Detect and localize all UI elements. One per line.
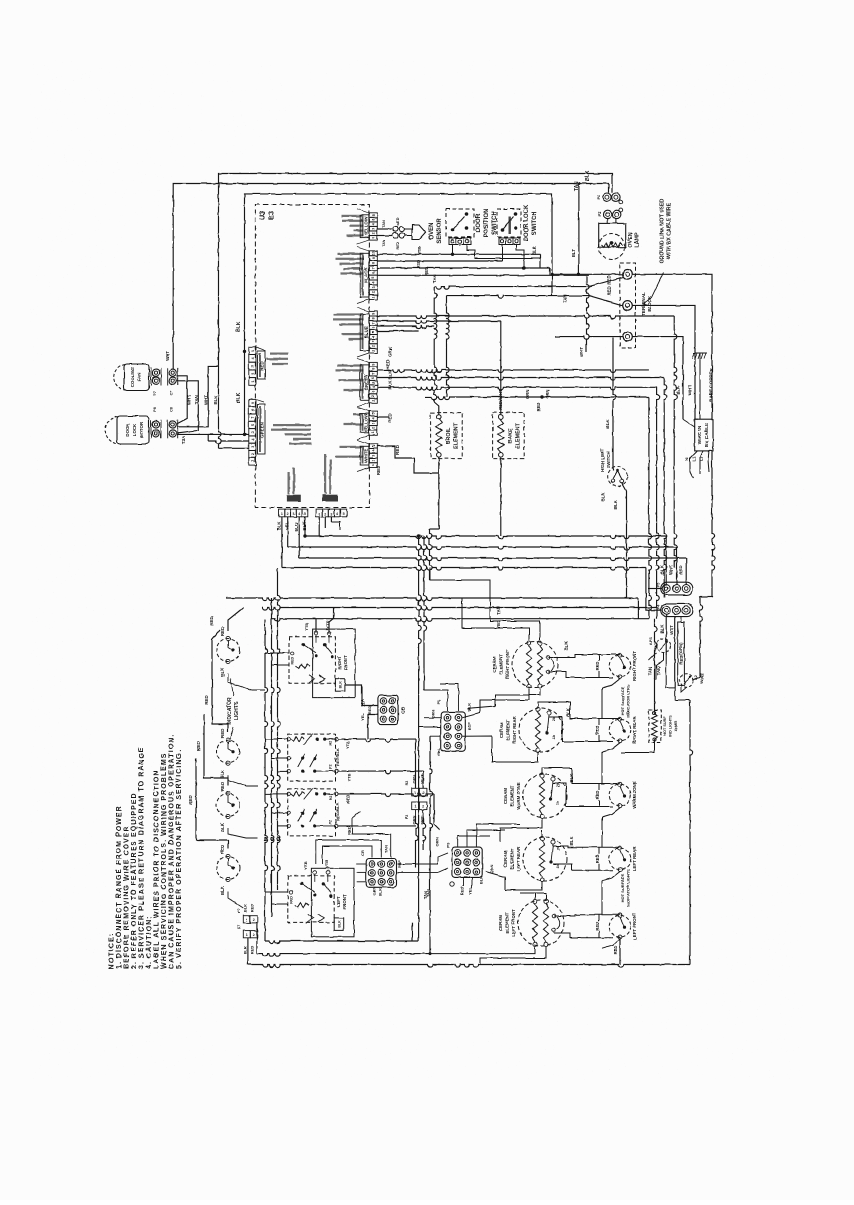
- wire vertical x446 to y397: [447, 296, 450, 397]
- wire into terminal 1: [552, 273, 623, 275]
- wire terminal 3 right: [632, 337, 683, 420]
- wire RED black strip y261: [377, 260, 502, 262]
- wire RED to indicator 3: [204, 714, 228, 786]
- wire blue strip run 3: [377, 326, 434, 329]
- wires P4 pins down: [665, 614, 667, 655]
- bottom left verticals: [247, 938, 249, 965]
- wire blk vertical into green strip third: [219, 366, 222, 448]
- control board U3 E3 dashed outline: [255, 205, 369, 508]
- transformer bottom to chain: [621, 740, 655, 753]
- indicator light 2: [217, 740, 240, 763]
- door position switch contacts: [451, 228, 455, 232]
- main vertical bus x418: [419, 536, 422, 712]
- wire x712 right edge down: [712, 451, 715, 597]
- wire RED to indicator 4: [196, 758, 228, 849]
- ceramic element right rear: [519, 708, 563, 752]
- terminal 1: [623, 270, 633, 280]
- wires P6 left to bus: [424, 717, 441, 719]
- bottom wire y941: [265, 941, 419, 944]
- wires P6 top from bus: [424, 690, 448, 711]
- connector strip RED board left: [249, 347, 256, 355]
- red grn label box: [678, 622, 685, 685]
- wire into terminal 2 diagonal: [555, 296, 623, 306]
- door lock switch contacts: [501, 228, 505, 232]
- wires yellow strip to oven sensor: [377, 228, 392, 230]
- taps to switch 3: [265, 793, 288, 795]
- connector strip GREEN with pin text: [369, 362, 377, 367]
- ceramic element right front: [512, 642, 558, 688]
- connector grid A 3x3: [366, 859, 396, 888]
- infinite switch left rear: [288, 789, 336, 836]
- connector P2m 2-pin: [412, 802, 420, 810]
- broil return joins bus: [430, 528, 439, 530]
- wire broil top feed: [434, 402, 439, 415]
- wire y567 corner down to P4 pin1: [646, 568, 662, 611]
- infinite switch left front: [288, 876, 334, 923]
- cooling fan plug C7: [167, 368, 169, 386]
- broil element dashed box: [431, 413, 463, 459]
- connector strip BLUE with pin text: [369, 311, 377, 316]
- wires P5 pins up to bus: [665, 536, 667, 585]
- wire diagonal from terminal 1: [555, 277, 623, 287]
- connector strip BLACK with pin text: [369, 251, 377, 256]
- door lock motor body: [117, 416, 149, 444]
- oven sensor probe connector: [404, 228, 412, 230]
- ground link leader arrow: [644, 273, 664, 305]
- door lock switch dashed box: [497, 209, 521, 237]
- taps to switch 2: [265, 738, 288, 740]
- wires R2 P2m to bus: [415, 781, 417, 788]
- wire into green strip second: [208, 441, 249, 444]
- wire TAN second run to plug P1: [173, 184, 608, 370]
- wire door position switch COM drop: [452, 245, 454, 255]
- connector strip board bottom right: [316, 509, 322, 517]
- wire terminal 1 to bx cable right edge: [632, 274, 712, 419]
- wire red from white strip to broil: [377, 446, 439, 473]
- wire BLK top run to oven lamp plug P1: [219, 174, 613, 366]
- door position switch terminal strip: [449, 238, 471, 245]
- wire left runs terminal area y286: [434, 287, 555, 290]
- bottom wire y953: [257, 954, 430, 957]
- wire transformer top to bus y618: [655, 619, 658, 713]
- wire from bottom strip A pin2 down: [287, 517, 289, 547]
- wire green strip runs right: [377, 370, 649, 373]
- wire RED to indicator 1: [228, 608, 244, 631]
- wires grid A top to switch4: [323, 846, 373, 864]
- indicator light 1: [217, 639, 240, 662]
- wire x657 from bus y607: [656, 608, 658, 619]
- bx cable entry leads: [683, 419, 695, 427]
- door lock switch tiny text: [509, 216, 511, 234]
- infinite switch right front: [289, 637, 335, 684]
- wires grid P9 top to right: [458, 836, 490, 847]
- bus wire y598: [226, 598, 638, 601]
- connector P4 3 circle pins: [661, 604, 693, 617]
- wire fan plug TAN step down: [177, 381, 199, 433]
- wire blue strip run 4: [377, 330, 418, 332]
- oven lamp filament: [602, 243, 623, 248]
- bake element dashed box: [493, 413, 525, 459]
- connector P6 grid 2x4: [441, 712, 466, 751]
- connector strip board bottom left: [279, 509, 285, 517]
- ceramic element left front: [518, 900, 564, 946]
- breaker connector CB: [378, 695, 398, 724]
- wire bake bottom return: [500, 457, 502, 536]
- connector strip YELLOW with pin text: [369, 213, 377, 218]
- connector strip WHITE with pin text: [369, 444, 377, 449]
- wire wht from top frame to door plug: [177, 366, 219, 427]
- wire blue strip runs right: [377, 316, 674, 319]
- wire yellow2 strip run: [377, 416, 389, 418]
- indicator light 3: [217, 794, 240, 817]
- taps to switch 4: [265, 891, 288, 893]
- bottom strip A tiny text: [288, 472, 290, 494]
- bus wire y618: [272, 619, 649, 622]
- hot surface switch left front: [609, 915, 631, 937]
- wire bundle vertical with humps at x586: [587, 277, 590, 353]
- wire in bx cable box: [695, 419, 713, 451]
- wire right column x656 from y387: [657, 387, 660, 607]
- bx cable tails: [690, 451, 697, 478]
- wire green strip run to x664: [377, 378, 664, 381]
- oven frame wire left lower: [244, 351, 246, 434]
- scan speckle noise: [95, 145, 740, 995]
- left bus vertical x271: [272, 598, 275, 917]
- plug pair P1: [603, 193, 611, 201]
- bake element resistor: [499, 415, 504, 420]
- ceramic element left rear: [523, 837, 567, 881]
- wires element right front top feeds: [462, 598, 529, 640]
- transformer winding: [652, 713, 658, 740]
- door position switch dashed box: [446, 209, 474, 237]
- oven lamp housing: [599, 223, 626, 247]
- wires switch3 right: [338, 794, 435, 797]
- door motor plug C8: [167, 420, 169, 439]
- plug pair P2: [604, 210, 612, 218]
- bus wire y607: [262, 608, 657, 611]
- wires grid P9 down: [463, 878, 465, 887]
- main vertical bus x424: [424, 536, 427, 690]
- switch chain verticals: [601, 688, 603, 719]
- junction dot red strip pin 1: [243, 350, 246, 353]
- oven frame wire top: [245, 194, 553, 352]
- door lock switch terminal strip: [499, 238, 520, 245]
- wires element right rear: [538, 702, 581, 719]
- wires switch1 top pins up to bus: [315, 619, 317, 634]
- wire BLK vertical from tan wire to terminal 1 line: [578, 184, 580, 275]
- wires element right front to switch: [548, 655, 581, 658]
- wire switch1 blk boxlet right: [345, 685, 378, 706]
- wire broil bottom return: [438, 457, 440, 529]
- hot surface switch right rear: [609, 719, 631, 741]
- bus wire y567: [282, 568, 646, 571]
- wires grid A to switch 4: [357, 881, 366, 883]
- wire from high limit bottom: [622, 483, 627, 598]
- bus wire y547: [288, 547, 677, 550]
- wire from bottom strip A pin4 down: [298, 517, 300, 558]
- wire right column x648 from green wires: [649, 397, 652, 619]
- connector strip YELLOW lower with pin text: [369, 411, 377, 416]
- hot surface ind lights transformer dashed box: [649, 710, 662, 743]
- wires element right front bottoms: [463, 689, 530, 718]
- hot surface switch right front: [609, 655, 631, 677]
- terminal 3: [623, 332, 633, 342]
- indicator light 4: [217, 857, 240, 880]
- wire RED to indicator 2: [212, 630, 228, 732]
- connector strip GREEN board left: [249, 399, 256, 406]
- cooling fan plug P7: [150, 368, 152, 386]
- wire stub into P5 pin1: [648, 588, 662, 590]
- green strip tiny pin text: [273, 424, 311, 426]
- wire switch4 bottoms down: [429, 933, 431, 954]
- connector R7 2-pin bottom left: [243, 931, 250, 938]
- wires indicator bottoms to left bus: [228, 674, 265, 691]
- wires switch2 to R2 connector: [338, 739, 416, 742]
- wire from bottom strip A pin1 down: [281, 517, 283, 568]
- terminal 2: [623, 301, 633, 311]
- wire fan plug step down right: [177, 376, 187, 424]
- oven lamp supply wires: [607, 219, 609, 224]
- wire circle L2 bottom: [680, 674, 694, 688]
- main vertical bus x429 broil return: [430, 529, 433, 580]
- ceramic element warm zone: [523, 774, 567, 818]
- bottom strip B tiny text: [324, 454, 326, 494]
- wire tan diagonal from left: [649, 653, 656, 660]
- connector grid P9 3x3: [452, 847, 482, 877]
- connector P7 2-pin bottom left: [243, 916, 250, 923]
- wire x700 from x712 corner: [700, 597, 703, 677]
- hot surface switch left rear: [609, 848, 631, 870]
- left bus vertical x277: [278, 568, 281, 891]
- wire TAN vertical x430: [430, 736, 433, 933]
- wires element left rear: [541, 830, 543, 837]
- broil element resistor: [437, 415, 442, 420]
- frame right drop to wire: [551, 274, 553, 295]
- door lock drop wires: [540, 254, 542, 268]
- high limit switch dashed circle: [608, 467, 628, 487]
- wires element left front: [534, 893, 536, 899]
- wire TAN black strip y275: [377, 274, 589, 276]
- wire bake top feed: [500, 397, 502, 415]
- wire left front switch bottom to y964: [619, 937, 621, 965]
- wire x418 bottom joins y712: [418, 712, 420, 941]
- wire x690 long right vertical: [690, 700, 693, 965]
- wire terminal 2 right: [632, 305, 695, 419]
- wire BLK black strip pin row y254: [377, 253, 540, 255]
- wire blue strip run 2: [377, 321, 501, 324]
- oven lamp bulb dashed circle: [599, 234, 625, 260]
- wire red grn to circle: [681, 685, 687, 692]
- wire door position switch NO drop: [467, 245, 541, 259]
- wires element warm zone: [542, 768, 581, 784]
- wires grid A right to P9: [398, 853, 449, 864]
- long wire y397 with junction: [425, 397, 649, 400]
- wire y598 corner down join y618: [637, 598, 639, 619]
- terminal block dashed outline: [620, 263, 636, 348]
- infinite switch warm zone: [288, 734, 336, 781]
- oven sensor splice circles: [393, 226, 398, 231]
- bus wire y558: [299, 558, 686, 561]
- wires from bottom strip B down: [318, 517, 320, 536]
- ground bare copper symbol: [699, 360, 701, 419]
- left bus vertical x265: [265, 620, 268, 941]
- bus wire y536: [305, 536, 666, 539]
- LPS light sensor dashed circle: [657, 639, 671, 653]
- wire terminal 3 long left with humps: [555, 337, 623, 340]
- indicator leader lines: [231, 678, 234, 696]
- wire RED black strip y268: [377, 267, 549, 269]
- connector R2 2-pin: [412, 788, 420, 796]
- wire from bottom strip A pin5 down: [304, 517, 306, 536]
- hot surface switch warm zone: [609, 784, 631, 806]
- connector P5 3 circle pins: [661, 582, 693, 595]
- wire BLK into high limit from top: [613, 338, 616, 471]
- taps to switch 1: [265, 652, 289, 654]
- wire from P4 down to bottom: [666, 655, 675, 688]
- wire door motor to green strip: [177, 433, 249, 435]
- wire left runs terminal area y295: [447, 296, 556, 299]
- bottom wire y964: [248, 965, 690, 968]
- wire lps bottom to tan run: [656, 653, 664, 681]
- door motor plug P8: [150, 420, 152, 439]
- cooling fan body: [124, 364, 149, 391]
- wire CB second to switch2: [368, 715, 378, 740]
- red strip tiny text: [270, 353, 288, 355]
